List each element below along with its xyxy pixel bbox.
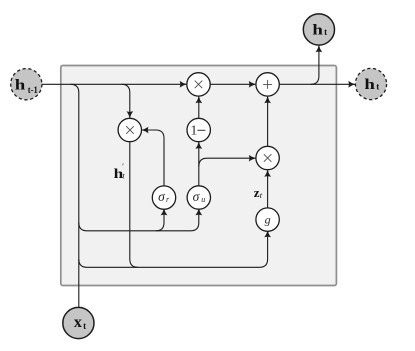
label h'_t xyxy=(114,161,126,182)
op-circle sigma_u xyxy=(187,186,210,209)
wire H1 to sigma_u xyxy=(79,209,199,231)
svg-text:x: x xyxy=(74,314,82,331)
op-circle times2 (top) xyxy=(187,73,210,96)
wire branch H1 to sigma_r xyxy=(156,209,164,231)
wire branch down into times1 xyxy=(122,84,130,118)
op-circle times3 (z times g) xyxy=(256,146,279,169)
wire times2 output to plus xyxy=(210,83,255,85)
svg-text:g: g xyxy=(265,212,271,226)
svg-text:h: h xyxy=(15,77,26,93)
op-circle sigma_r xyxy=(152,186,175,209)
wire g output to times3 xyxy=(267,170,269,208)
wire H2 to g xyxy=(79,231,268,267)
svg-text:h: h xyxy=(312,23,323,39)
node h_{t-1} xyxy=(11,69,42,100)
svg-text:t-1: t-1 xyxy=(28,85,38,95)
op-circle oneminus xyxy=(187,118,210,141)
wire branch sigma_u to times3 xyxy=(199,158,256,166)
wire branch up to h_t top xyxy=(311,46,319,85)
wire oneminus output to times2 xyxy=(198,97,200,119)
cell body rectangle xyxy=(61,66,337,286)
wire times3 output to plus xyxy=(267,97,269,147)
svg-text:1: 1 xyxy=(190,124,197,139)
label z_t xyxy=(254,185,263,200)
wire sigma_u output to oneminus xyxy=(198,142,200,186)
node x_t xyxy=(63,307,94,338)
wire plus output to h_t right xyxy=(279,83,355,85)
wire branch down left / x_t trunk xyxy=(71,84,79,307)
wire times1 output merging into H2 xyxy=(130,142,138,268)
wire h_{t-1} to times2 xyxy=(42,83,186,85)
svg-text:t: t xyxy=(376,81,379,91)
svg-text:h: h xyxy=(364,77,375,93)
svg-text:t: t xyxy=(324,27,327,37)
op-circle plus xyxy=(256,73,279,96)
svg-text:t: t xyxy=(83,321,86,331)
node h_t right xyxy=(355,68,386,99)
op-circle g xyxy=(256,208,279,231)
svg-text:u: u xyxy=(201,195,205,204)
op-circle times1 (r applied to h) xyxy=(118,118,141,141)
wire sigma_r output to times1 xyxy=(142,130,164,186)
node h_t top xyxy=(303,14,334,45)
